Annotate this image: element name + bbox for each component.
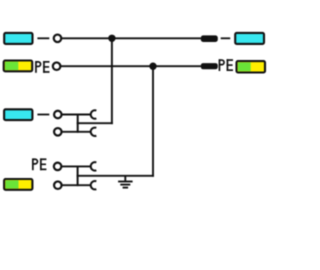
- wire vertical from row1 junction: [111, 38, 113, 124]
- marker rect green/yellow PE row2 left: [4, 61, 33, 72]
- terminal circle row6: [54, 181, 62, 189]
- junction dot row1: [108, 35, 115, 42]
- PE label row2 left: [35, 61, 49, 73]
- plug contact arc row4: [91, 128, 97, 136]
- terminal circle row2 left: [53, 62, 61, 70]
- terminal circle row3: [54, 111, 62, 119]
- PE label row2 right: [219, 59, 233, 71]
- plug contact arc row6: [91, 181, 97, 189]
- marker rect blue row1 right: [235, 33, 264, 44]
- bridge bar rows3-4: [77, 114, 79, 133]
- wire row5 to plug: [61, 165, 91, 167]
- wire bridge midtap row3-4: [77, 122, 113, 124]
- wire row1 horizontal: [61, 37, 201, 39]
- PE label row5 left: [32, 158, 46, 170]
- bridge bar rows5-6: [77, 166, 79, 187]
- terminal circle row4: [54, 128, 62, 136]
- junction dot row2: [149, 62, 156, 69]
- wire row3 to plug: [61, 114, 91, 116]
- marker rect blue L1 left: [4, 33, 32, 44]
- dash left row1: [37, 37, 49, 39]
- wire vertical from row2 junction: [152, 66, 154, 177]
- wire row2 horizontal: [60, 65, 201, 67]
- marker rect green/yellow row6 left: [4, 179, 32, 190]
- plug contact arc row3: [91, 110, 97, 118]
- wire row6 to plug: [61, 184, 91, 186]
- wire row4 to plug: [61, 131, 91, 133]
- plug contact arc row5: [91, 162, 97, 170]
- dash left row3: [37, 114, 49, 116]
- terminal circle row1 left: [54, 35, 62, 43]
- terminal circle row5: [54, 163, 62, 171]
- marker rect blue row3 left: [4, 109, 32, 120]
- blade contact row2 right: [201, 63, 218, 69]
- wire bridge midtap rows5-6: [77, 175, 154, 177]
- blade contact row1 right: [201, 35, 218, 42]
- dash right row1: [221, 37, 231, 39]
- marker rect green/yellow row2 right: [237, 61, 266, 72]
- ground symbol: [118, 176, 133, 188]
